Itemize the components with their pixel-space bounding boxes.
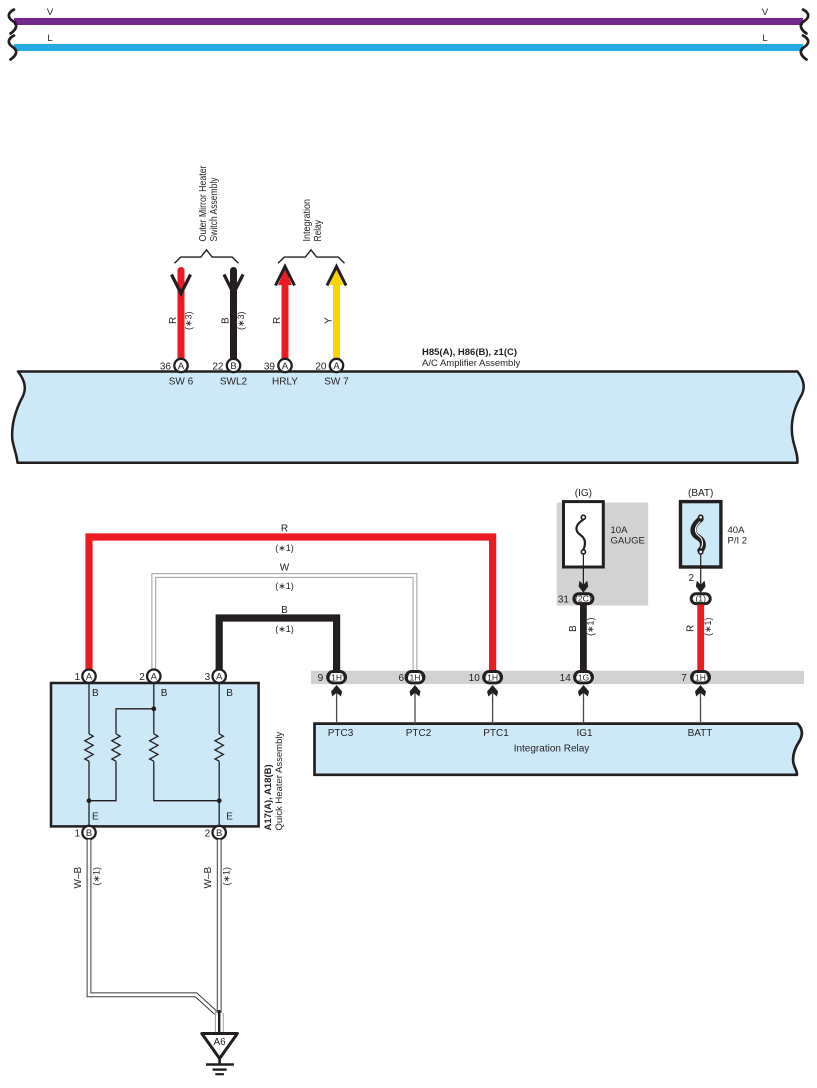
svg-text:(∗1): (∗1) xyxy=(222,867,232,886)
svg-text:2: 2 xyxy=(688,573,694,584)
svg-text:HRLY: HRLY xyxy=(272,377,298,388)
arrowhead down on wire R xyxy=(172,275,191,294)
svg-text:A/C Amplifier Assembly: A/C Amplifier Assembly xyxy=(422,358,520,369)
resistor 2 xyxy=(112,734,120,761)
svg-text:L: L xyxy=(47,33,52,44)
resistor 3 xyxy=(150,734,158,761)
svg-text:40A: 40A xyxy=(728,525,746,536)
wire fuse BAT to connector 1, pin 2 xyxy=(688,554,700,586)
break symbol right of wire V xyxy=(801,10,808,34)
svg-text:B: B xyxy=(86,828,92,839)
svg-text:B: B xyxy=(92,688,99,699)
label A17(A), A18(B) Quick Heater Assembly (rotated) xyxy=(263,732,285,831)
svg-text:E: E xyxy=(226,812,233,823)
wire B to SWL2 (black) xyxy=(221,271,247,360)
connector 10 (1H) PTC1 xyxy=(469,672,502,685)
brace for Integration Relay (upper) xyxy=(278,250,345,263)
label Outer Mirror Heater Switch Assembly (rotated) xyxy=(198,165,220,242)
svg-text:(1H): (1H) xyxy=(692,673,709,683)
connector 1 xyxy=(691,594,710,604)
svg-text:1: 1 xyxy=(74,829,80,840)
svg-text:SWL2: SWL2 xyxy=(220,377,248,388)
svg-text:B: B xyxy=(161,688,168,699)
svg-text:A: A xyxy=(86,672,93,683)
arrow PTC2 xyxy=(406,685,432,739)
wire W from heater pin 2 to PTC2 (white, outlined) xyxy=(154,563,415,671)
bus wire L (light blue) xyxy=(14,33,803,51)
resistor 2 bottom wire xyxy=(89,761,116,801)
Quick Heater Assembly box xyxy=(51,683,259,826)
break symbol right of wire L xyxy=(801,36,808,60)
heater pin 1 (B) bottom xyxy=(74,812,99,840)
svg-text:A: A xyxy=(151,672,158,683)
svg-text:(∗1): (∗1) xyxy=(275,581,294,591)
svg-text:(2C): (2C) xyxy=(575,594,592,604)
svg-text:W: W xyxy=(280,563,290,574)
junction dot pin3 bottom xyxy=(217,798,222,803)
heater pin 2 (B) bottom xyxy=(205,812,234,840)
pin 39 (A) HRLY xyxy=(264,359,298,388)
svg-text:Quick Heater Assembly: Quick Heater Assembly xyxy=(274,732,285,831)
svg-text:B: B xyxy=(281,605,288,616)
svg-text:SW 7: SW 7 xyxy=(324,377,349,388)
wire B from heater pin 3 to PTC3 (black, thick) xyxy=(219,605,336,671)
svg-text:Integration Relay: Integration Relay xyxy=(514,744,590,755)
heater pin 2 (A) xyxy=(139,670,168,700)
svg-text:PTC1: PTC1 xyxy=(483,728,509,739)
svg-text:3: 3 xyxy=(205,672,211,683)
svg-text:14: 14 xyxy=(560,673,572,684)
svg-text:V: V xyxy=(762,7,769,18)
svg-text:Outer Mirror Heater: Outer Mirror Heater xyxy=(198,165,209,242)
wire pin2 vertical xyxy=(153,683,155,734)
svg-text:(1G): (1G) xyxy=(575,673,592,683)
svg-text:(∗1): (∗1) xyxy=(703,617,713,636)
svg-text:B: B xyxy=(230,361,236,372)
heater pin 3 (A) xyxy=(205,670,234,700)
arrowhead up on wire Y xyxy=(327,267,346,286)
svg-text:IG1: IG1 xyxy=(576,728,593,739)
junction dot pin1 bottom xyxy=(87,798,92,803)
arrowhead down to 1 xyxy=(696,581,706,593)
svg-text:W–B: W–B xyxy=(73,867,84,889)
bus wire V (violet) xyxy=(14,7,803,25)
wire R from 1 to BATT (red, thick) xyxy=(686,605,714,673)
svg-text:L: L xyxy=(762,33,767,44)
svg-text:31: 31 xyxy=(558,595,570,606)
connector 31 (2C) xyxy=(558,594,593,606)
svg-text:R: R xyxy=(272,317,283,324)
arrowhead down on wire B xyxy=(224,275,243,294)
brace for Outer Mirror Heater Switch Assembly xyxy=(175,250,239,263)
A/C Amplifier Assembly box xyxy=(12,347,804,463)
label Integration Relay (rotated) xyxy=(302,199,324,242)
resistor 4 xyxy=(215,734,223,761)
svg-text:A17(A), A18(B): A17(A), A18(B) xyxy=(263,764,274,830)
svg-text:PTC3: PTC3 xyxy=(328,728,354,739)
gray background IG fuse xyxy=(557,503,649,606)
svg-text:(1H): (1H) xyxy=(407,673,424,683)
svg-text:(∗1): (∗1) xyxy=(275,624,294,634)
wire fuse IG to connector 2C xyxy=(582,554,584,586)
svg-text:Switch Assembly: Switch Assembly xyxy=(209,178,220,242)
wire W-B from heater pin 2 bottom xyxy=(203,840,232,1014)
svg-text:R: R xyxy=(686,625,697,632)
wire W-B merged bundle to ground xyxy=(215,1010,223,1034)
svg-text:1: 1 xyxy=(74,672,80,683)
svg-text:GAUGE: GAUGE xyxy=(611,535,645,546)
svg-text:BATT: BATT xyxy=(688,728,713,739)
svg-text:R: R xyxy=(168,317,179,324)
arrowhead up on wire R (HRLY) xyxy=(276,267,295,286)
svg-text:20: 20 xyxy=(315,362,327,373)
svg-text:PTC2: PTC2 xyxy=(406,728,432,739)
svg-text:B: B xyxy=(568,625,579,632)
svg-text:22: 22 xyxy=(212,362,224,373)
svg-text:10: 10 xyxy=(469,673,481,684)
svg-text:7: 7 xyxy=(681,673,687,684)
svg-text:(IG): (IG) xyxy=(575,488,592,499)
arrow IG1 xyxy=(576,685,593,739)
heater pin 1 (A) xyxy=(74,670,99,700)
connector 9 (1H) PTC3 xyxy=(318,672,346,685)
resistor 2 top wire xyxy=(116,709,154,734)
pin 20 (A) SW 7 xyxy=(315,359,349,388)
connector 6 (1H) PTC2 xyxy=(398,672,424,685)
fuse 40A P/I 2 xyxy=(681,488,748,567)
svg-text:(BAT): (BAT) xyxy=(688,488,713,499)
pin 36 (A) SW 6 xyxy=(160,359,194,388)
svg-text:V: V xyxy=(47,7,54,18)
svg-text:10A: 10A xyxy=(611,525,629,536)
arrow BATT xyxy=(688,685,713,739)
wire R to HRLY (red) xyxy=(272,269,292,360)
resistor 3 bottom wire xyxy=(154,761,219,801)
svg-text:(∗1): (∗1) xyxy=(92,867,102,886)
svg-text:A: A xyxy=(216,672,223,683)
svg-text:A: A xyxy=(333,361,340,372)
svg-text:9: 9 xyxy=(318,673,324,684)
svg-text:A: A xyxy=(282,361,289,372)
svg-text:A6: A6 xyxy=(213,1037,226,1048)
wire pin1 vertical xyxy=(88,683,90,734)
arrow PTC3 xyxy=(328,685,354,739)
wire W-B from heater pin 1 bottom xyxy=(73,840,216,1013)
svg-text:(1H): (1H) xyxy=(328,673,345,683)
pin 22 (B) SWL2 xyxy=(212,359,247,388)
svg-text:W–B: W–B xyxy=(203,867,214,889)
svg-text:(∗1): (∗1) xyxy=(586,617,596,636)
arrowhead down to 2C xyxy=(579,581,589,593)
svg-text:Integration: Integration xyxy=(302,199,313,242)
svg-text:6: 6 xyxy=(398,673,404,684)
resistor 1 xyxy=(85,734,93,761)
svg-text:Y: Y xyxy=(324,317,335,324)
ground A6 xyxy=(202,1034,238,1075)
svg-text:R: R xyxy=(281,524,288,535)
svg-text:(∗3): (∗3) xyxy=(184,311,194,330)
svg-text:(1H): (1H) xyxy=(484,673,501,683)
break symbol left of wire L xyxy=(9,36,16,60)
svg-text:H85(A), H86(B), z1(C): H85(A), H86(B), z1(C) xyxy=(422,347,517,358)
svg-text:2: 2 xyxy=(139,672,145,683)
connector 14 (1G) IG1 xyxy=(560,672,593,685)
wire R to SW 6 (red) xyxy=(168,271,194,360)
gray band 1H/1G xyxy=(311,671,804,684)
arrow PTC1 xyxy=(483,685,509,739)
junction dot pin2 branch xyxy=(151,706,156,711)
wire Y to SW 7 (yellow) xyxy=(324,269,344,360)
svg-text:B: B xyxy=(221,317,232,324)
svg-text:SW 6: SW 6 xyxy=(169,377,194,388)
svg-text:(∗3): (∗3) xyxy=(236,311,246,330)
svg-text:A: A xyxy=(178,361,185,372)
svg-text:B: B xyxy=(226,688,233,699)
wire resistor4 to bottom pin xyxy=(218,761,220,826)
svg-text:B: B xyxy=(216,828,222,839)
wire R from heater pin 1 to PTC1 (red, thick) xyxy=(89,524,493,671)
wire pin3 vertical xyxy=(218,683,220,734)
svg-text:E: E xyxy=(92,812,99,823)
connector 7 (1H) BATT xyxy=(681,672,709,685)
wire B from 2C to IG1 (black, thick) xyxy=(568,605,596,673)
svg-text:P/I 2: P/I 2 xyxy=(728,535,748,546)
Integration Relay box xyxy=(315,724,802,775)
svg-text:36: 36 xyxy=(160,362,172,373)
fuse 10A GAUGE xyxy=(564,488,645,567)
svg-text:39: 39 xyxy=(264,362,276,373)
svg-text:(∗1): (∗1) xyxy=(275,543,294,553)
svg-text:(1): (1) xyxy=(695,594,706,604)
wire resistor1 to junction xyxy=(88,761,90,826)
break symbol left of wire V xyxy=(9,10,16,34)
svg-text:2: 2 xyxy=(205,829,211,840)
svg-text:Relay: Relay xyxy=(313,220,324,242)
